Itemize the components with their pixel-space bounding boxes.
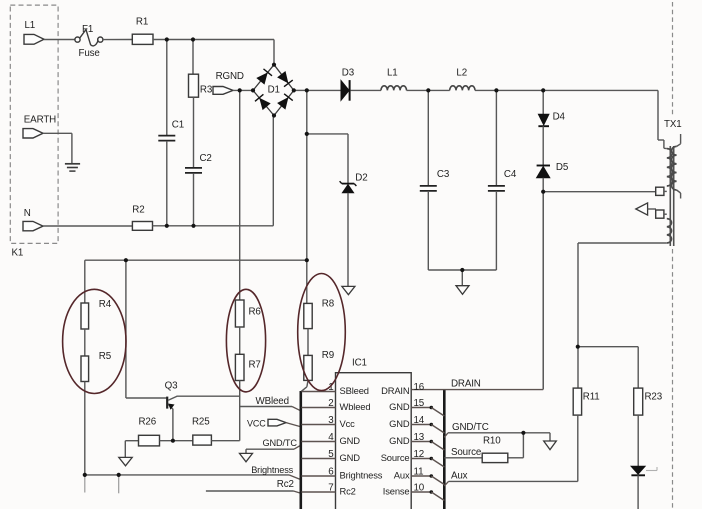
svg-text:R5: R5 [99, 351, 112, 362]
svg-text:RGND: RGND [216, 71, 244, 82]
svg-text:C3: C3 [437, 169, 450, 180]
svg-text:D2: D2 [355, 172, 367, 183]
svg-text:5: 5 [328, 449, 334, 460]
svg-text:EARTH: EARTH [24, 114, 56, 125]
svg-text:Brightness: Brightness [251, 465, 293, 475]
svg-text:13: 13 [414, 432, 425, 443]
svg-text:L1: L1 [25, 20, 36, 31]
svg-text:R4: R4 [99, 299, 112, 310]
svg-text:N: N [24, 208, 31, 219]
svg-text:Source: Source [451, 447, 482, 458]
svg-text:WBleed: WBleed [256, 396, 289, 407]
svg-text:Aux: Aux [451, 471, 468, 482]
svg-text:R2: R2 [132, 205, 144, 216]
svg-text:16: 16 [414, 382, 425, 393]
svg-text:D5: D5 [556, 162, 569, 173]
svg-text:GND/TC: GND/TC [452, 422, 489, 433]
svg-text:GND: GND [389, 418, 410, 429]
svg-text:D3: D3 [342, 68, 355, 79]
svg-text:Rc2: Rc2 [340, 486, 356, 497]
svg-text:R11: R11 [583, 392, 600, 403]
svg-text:Wbleed: Wbleed [340, 401, 371, 412]
svg-text:R1: R1 [136, 16, 148, 27]
svg-text:D4: D4 [553, 111, 566, 122]
svg-text:Source: Source [381, 452, 410, 463]
svg-text:SBleed: SBleed [340, 385, 369, 396]
svg-text:Vcc: Vcc [340, 418, 356, 429]
svg-text:Aux: Aux [394, 470, 410, 481]
svg-text:L1: L1 [387, 68, 398, 79]
svg-text:GND: GND [340, 435, 361, 446]
svg-text:6: 6 [328, 467, 334, 478]
svg-text:R9: R9 [322, 350, 334, 361]
svg-text:R7: R7 [249, 360, 261, 371]
svg-text:12: 12 [414, 449, 425, 460]
svg-text:DRAIN: DRAIN [451, 379, 481, 390]
svg-text:10: 10 [414, 483, 425, 494]
svg-text:R3: R3 [200, 85, 213, 96]
svg-text:GND: GND [340, 452, 361, 463]
svg-text:15: 15 [414, 398, 425, 409]
svg-text:GND: GND [389, 401, 410, 412]
svg-text:R25: R25 [192, 417, 210, 428]
svg-text:VCC: VCC [247, 418, 266, 428]
svg-text:3: 3 [328, 415, 334, 426]
svg-text:R23: R23 [645, 392, 663, 403]
svg-text:F1: F1 [82, 24, 93, 35]
svg-text:Fuse: Fuse [79, 48, 101, 59]
svg-text:L2: L2 [456, 68, 467, 79]
svg-text:D1: D1 [268, 85, 280, 96]
svg-text:K1: K1 [12, 247, 24, 258]
svg-text:7: 7 [328, 483, 333, 494]
svg-text:TX1: TX1 [664, 119, 682, 130]
svg-text:R26: R26 [139, 417, 157, 428]
svg-text:R8: R8 [322, 299, 335, 310]
svg-text:GND/TC: GND/TC [263, 438, 298, 448]
svg-text:R10: R10 [483, 436, 501, 447]
svg-text:IC1: IC1 [352, 358, 367, 369]
svg-text:GND: GND [389, 435, 410, 446]
svg-text:14: 14 [414, 415, 425, 426]
svg-text:R6: R6 [249, 307, 262, 318]
svg-text:C4: C4 [504, 169, 517, 180]
svg-text:11: 11 [414, 467, 424, 478]
svg-text:DRAIN: DRAIN [381, 385, 409, 396]
svg-text:C2: C2 [200, 153, 212, 164]
svg-text:Isense: Isense [383, 486, 410, 497]
svg-text:Brightness: Brightness [340, 470, 383, 481]
svg-text:2: 2 [328, 398, 333, 409]
svg-text:C1: C1 [172, 119, 184, 130]
svg-text:Q3: Q3 [165, 380, 178, 391]
svg-text:4: 4 [328, 432, 334, 443]
svg-text:Rc2: Rc2 [277, 479, 294, 490]
